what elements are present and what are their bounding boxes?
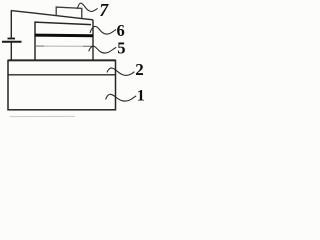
leader arrow to 1 <box>106 94 137 101</box>
wire left vertical lower (battery negative lead to electrode 2) <box>10 43 12 61</box>
leader arrow to 7 <box>77 3 97 11</box>
wire left vertical upper (battery positive lead) <box>10 10 12 38</box>
boundary line between layer 2 and layer 1 <box>8 74 116 76</box>
battery cell B1 short plate <box>8 38 16 40</box>
svg-text:5: 5 <box>117 39 125 58</box>
layer 6 stack outer box <box>35 22 91 60</box>
wire top horizontal from battery to layer 7 <box>11 11 93 20</box>
leader arrow to 5 <box>89 46 117 53</box>
layer 2 top electrode edge <box>8 59 116 61</box>
svg-text:7: 7 <box>99 0 109 20</box>
svg-text:2: 2 <box>135 60 144 79</box>
svg-text:6: 6 <box>117 21 125 40</box>
leader arrow to 2 <box>107 68 134 75</box>
thick emissive layer line between 6 and 5 <box>35 34 93 38</box>
layer 7 top electrode box <box>56 7 82 18</box>
battery cell B1 long plate <box>2 41 22 43</box>
scan artifact faint line <box>10 115 75 117</box>
leader arrow to 6 <box>90 26 116 34</box>
layer 2 / layer 1 substrate box <box>8 60 116 109</box>
svg-text:1: 1 <box>137 87 145 104</box>
faint layer boundary line of layer 5 <box>35 45 44 47</box>
